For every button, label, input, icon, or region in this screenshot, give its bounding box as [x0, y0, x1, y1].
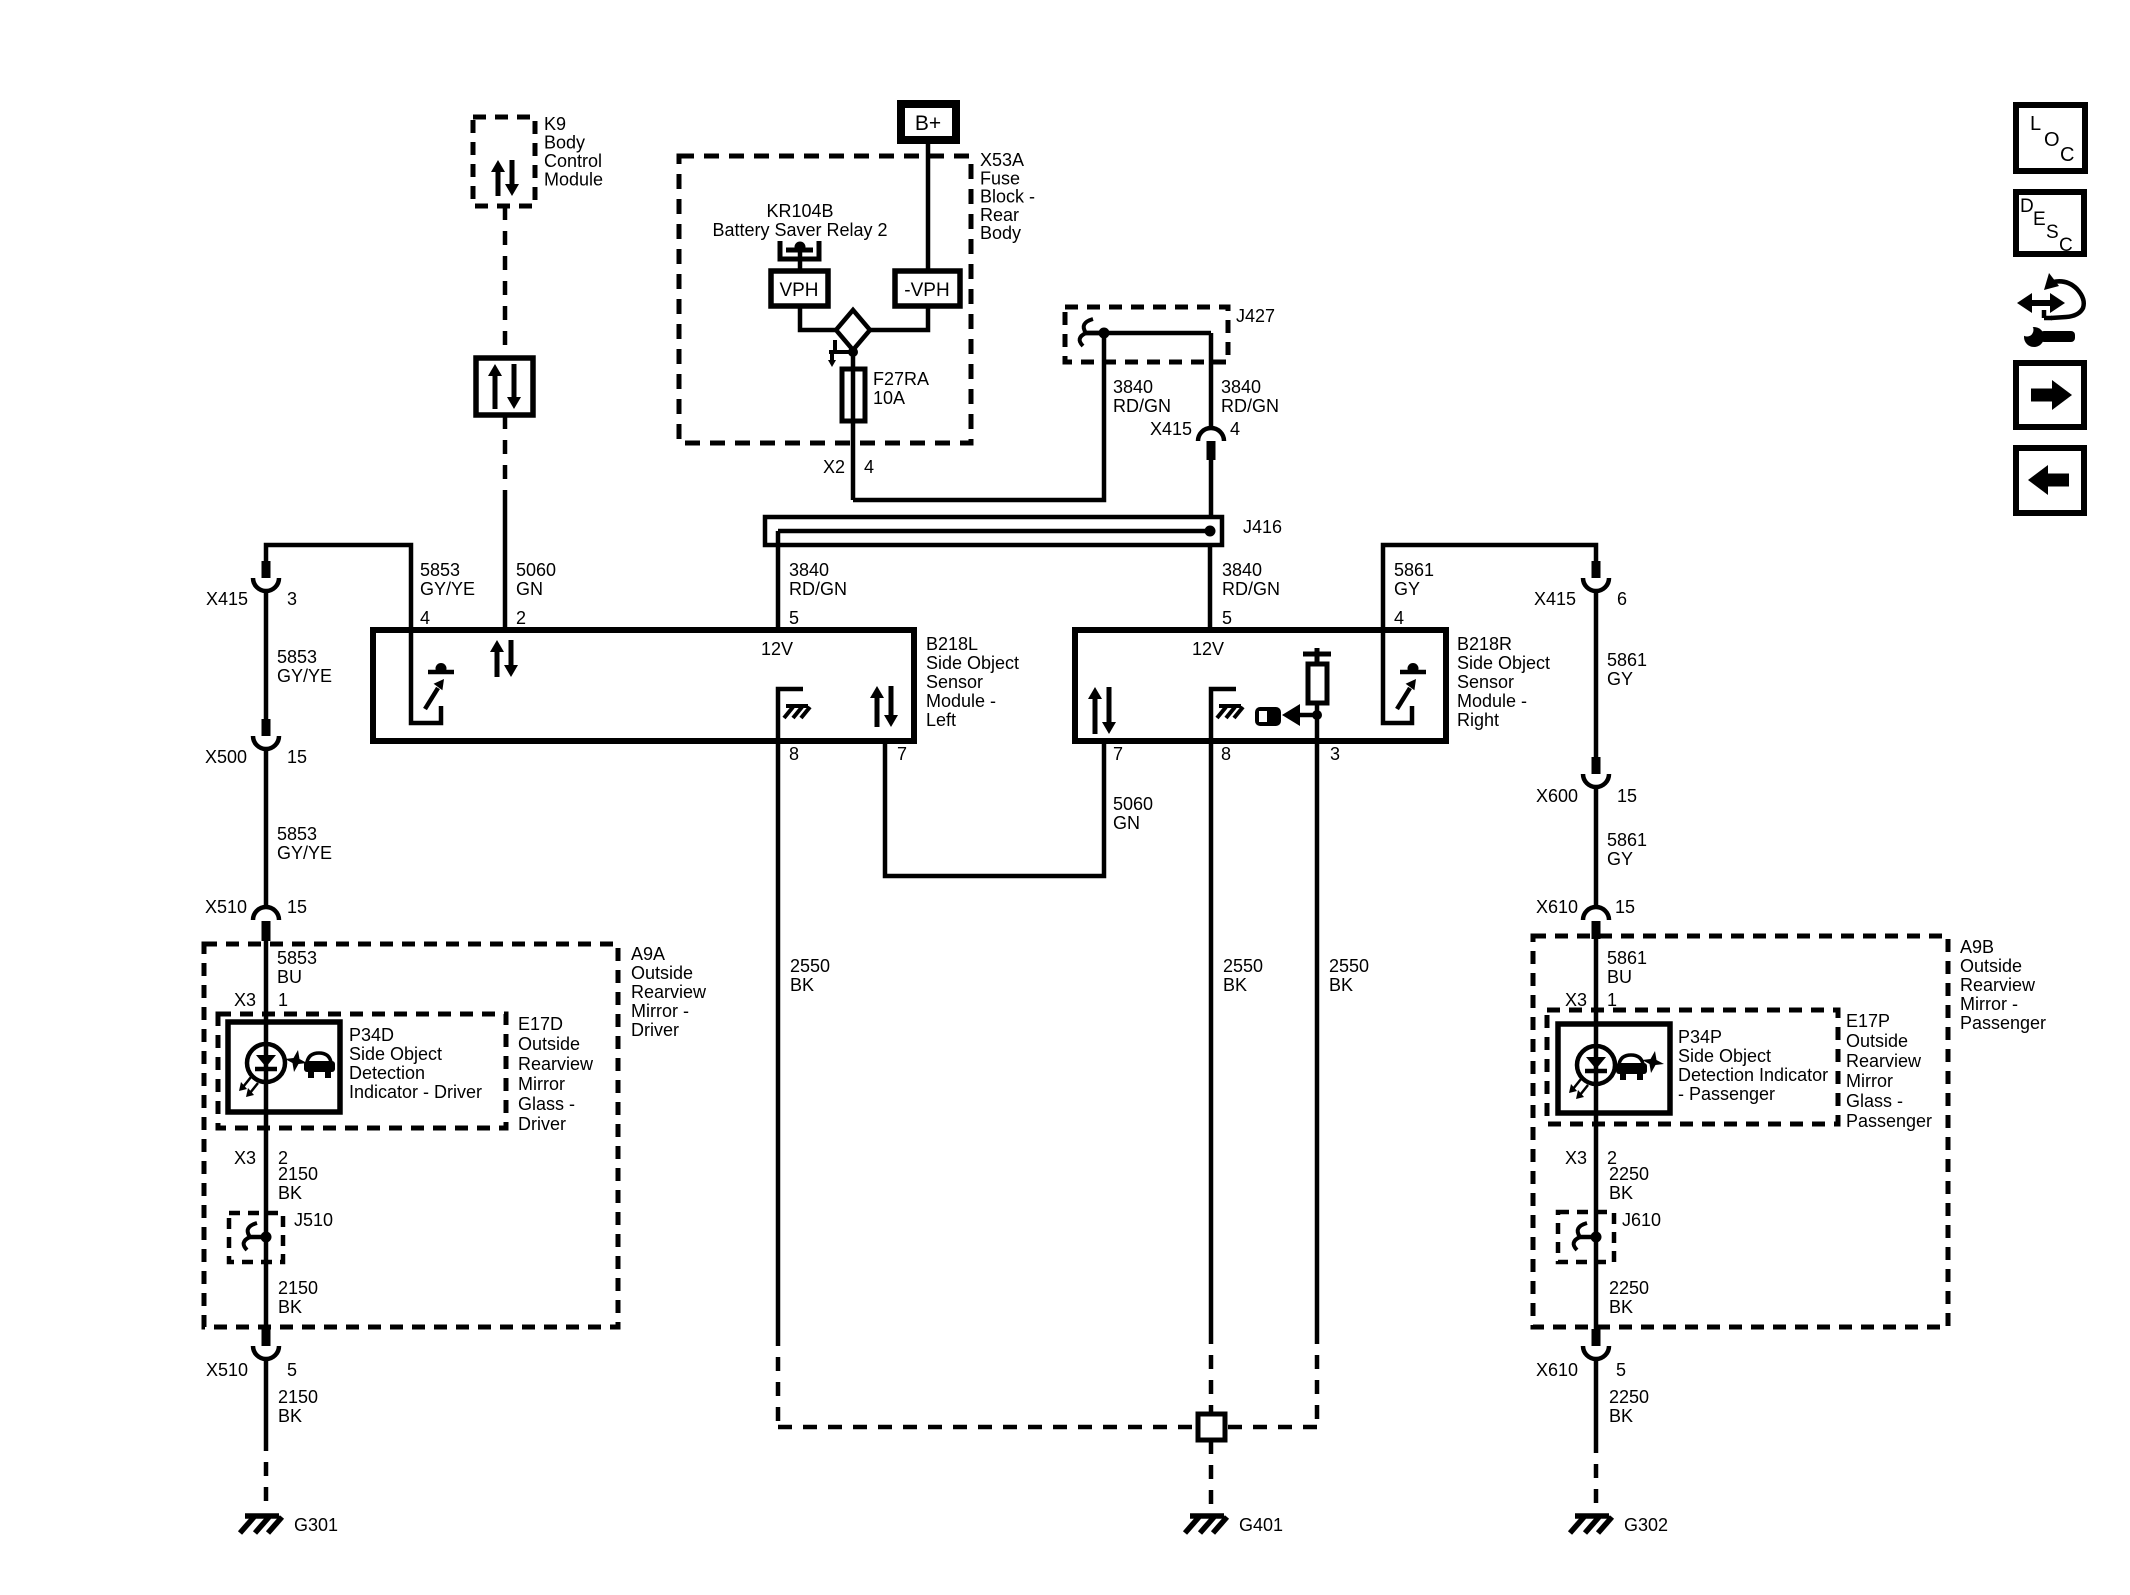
svg-text:Side Object: Side Object	[349, 1044, 442, 1064]
svg-text:F27RA: F27RA	[873, 369, 929, 389]
svg-text:5: 5	[789, 608, 799, 628]
svg-text:3: 3	[1330, 744, 1340, 764]
svg-text:X2: X2	[823, 457, 845, 477]
svg-text:Outside: Outside	[518, 1034, 580, 1054]
svg-text:2150: 2150	[278, 1278, 318, 1298]
svg-text:BK: BK	[790, 975, 814, 995]
svg-text:GN: GN	[516, 579, 543, 599]
svg-text:Rearview: Rearview	[1960, 975, 2036, 995]
svg-text:Fuse: Fuse	[980, 168, 1020, 188]
svg-text:Rear: Rear	[980, 205, 1019, 225]
svg-text:E: E	[2033, 209, 2046, 230]
svg-text:15: 15	[1617, 786, 1637, 806]
svg-text:BK: BK	[1609, 1297, 1633, 1317]
svg-text:15: 15	[287, 897, 307, 917]
svg-text:3840: 3840	[1222, 560, 1262, 580]
svg-text:X510: X510	[206, 1360, 248, 1380]
svg-text:Glass -: Glass -	[518, 1094, 575, 1114]
svg-text:Passenger: Passenger	[1960, 1013, 2046, 1033]
svg-text:BK: BK	[278, 1406, 302, 1426]
svg-text:5861: 5861	[1607, 948, 1647, 968]
svg-text:2: 2	[516, 608, 526, 628]
svg-text:5861: 5861	[1607, 830, 1647, 850]
svg-text:E17P: E17P	[1846, 1011, 1890, 1031]
svg-text:Passenger: Passenger	[1846, 1111, 1932, 1131]
svg-text:Driver: Driver	[518, 1114, 566, 1134]
svg-text:Glass -: Glass -	[1846, 1091, 1903, 1111]
svg-text:7: 7	[1113, 744, 1123, 764]
svg-text:S: S	[2046, 222, 2059, 243]
svg-text:2150: 2150	[278, 1164, 318, 1184]
svg-text:GN: GN	[1113, 813, 1140, 833]
svg-text:- Passenger: - Passenger	[1678, 1084, 1775, 1104]
svg-text:5853: 5853	[277, 948, 317, 968]
svg-text:Outside: Outside	[1846, 1031, 1908, 1051]
svg-text:A9A: A9A	[631, 944, 665, 964]
svg-text:2250: 2250	[1609, 1164, 1649, 1184]
svg-text:BK: BK	[1223, 975, 1247, 995]
svg-text:2550: 2550	[790, 956, 830, 976]
svg-text:1: 1	[278, 990, 288, 1010]
svg-text:15: 15	[287, 747, 307, 767]
svg-text:J416: J416	[1243, 517, 1282, 537]
svg-text:Battery Saver Relay 2: Battery Saver Relay 2	[712, 220, 887, 240]
svg-text:2550: 2550	[1329, 956, 1369, 976]
svg-text:X3: X3	[1565, 1148, 1587, 1168]
svg-text:Rearview: Rearview	[518, 1054, 594, 1074]
svg-text:Driver: Driver	[631, 1020, 679, 1040]
svg-text:G401: G401	[1239, 1515, 1283, 1535]
svg-text:Module: Module	[544, 170, 603, 190]
svg-text:GY/YE: GY/YE	[277, 666, 332, 686]
svg-text:5060: 5060	[516, 560, 556, 580]
svg-text:GY: GY	[1607, 849, 1633, 869]
svg-text:RD/GN: RD/GN	[1113, 396, 1171, 416]
svg-text:B218R: B218R	[1457, 634, 1512, 654]
svg-text:BK: BK	[1609, 1183, 1633, 1203]
svg-text:X500: X500	[205, 747, 247, 767]
svg-text:5: 5	[1616, 1360, 1626, 1380]
svg-text:Left: Left	[926, 710, 956, 730]
svg-text:BK: BK	[1609, 1406, 1633, 1426]
svg-text:12V: 12V	[761, 639, 793, 659]
svg-text:BK: BK	[278, 1183, 302, 1203]
svg-text:Sensor: Sensor	[1457, 672, 1514, 692]
svg-text:RD/GN: RD/GN	[1221, 396, 1279, 416]
svg-text:GY/YE: GY/YE	[420, 579, 475, 599]
svg-text:10A: 10A	[873, 388, 905, 408]
svg-text:BU: BU	[277, 967, 302, 987]
svg-text:Body: Body	[980, 223, 1021, 243]
svg-text:5853: 5853	[420, 560, 460, 580]
svg-text:Mirror: Mirror	[518, 1074, 565, 1094]
svg-text:X610: X610	[1536, 897, 1578, 917]
svg-text:1: 1	[1607, 990, 1617, 1010]
svg-text:Body: Body	[544, 133, 585, 153]
svg-text:Block -: Block -	[980, 187, 1035, 207]
svg-text:J510: J510	[294, 1210, 333, 1230]
svg-text:Side Object: Side Object	[1457, 653, 1550, 673]
svg-text:4: 4	[864, 457, 874, 477]
svg-text:7: 7	[897, 744, 907, 764]
svg-text:5861: 5861	[1394, 560, 1434, 580]
svg-text:3840: 3840	[1221, 377, 1261, 397]
svg-text:Outside: Outside	[631, 963, 693, 983]
svg-text:3: 3	[287, 589, 297, 609]
svg-text:4: 4	[420, 608, 430, 628]
svg-text:KR104B: KR104B	[766, 201, 833, 221]
svg-text:12V: 12V	[1192, 639, 1224, 659]
svg-text:6: 6	[1617, 589, 1627, 609]
svg-text:Outside: Outside	[1960, 956, 2022, 976]
svg-text:2250: 2250	[1609, 1387, 1649, 1407]
svg-text:4: 4	[1230, 419, 1240, 439]
svg-text:Module -: Module -	[1457, 691, 1527, 711]
svg-text:RD/GN: RD/GN	[789, 579, 847, 599]
svg-text:O: O	[2044, 129, 2060, 151]
svg-text:Control: Control	[544, 151, 602, 171]
svg-text:5: 5	[1222, 608, 1232, 628]
svg-text:3840: 3840	[1113, 377, 1153, 397]
svg-text:5853: 5853	[277, 647, 317, 667]
svg-text:BK: BK	[278, 1297, 302, 1317]
svg-text:8: 8	[789, 744, 799, 764]
svg-text:15: 15	[1615, 897, 1635, 917]
svg-text:E17D: E17D	[518, 1014, 563, 1034]
svg-text:2550: 2550	[1223, 956, 1263, 976]
svg-text:Mirror: Mirror	[1846, 1071, 1893, 1091]
svg-text:VPH: VPH	[779, 280, 818, 301]
svg-text:J610: J610	[1622, 1210, 1661, 1230]
svg-text:GY/YE: GY/YE	[277, 843, 332, 863]
svg-text:3840: 3840	[789, 560, 829, 580]
svg-text:BK: BK	[1329, 975, 1353, 995]
svg-text:5853: 5853	[277, 824, 317, 844]
svg-text:G301: G301	[294, 1515, 338, 1535]
svg-text:B+: B+	[915, 112, 941, 135]
svg-text:C: C	[2059, 235, 2073, 256]
svg-text:Detection: Detection	[349, 1063, 425, 1083]
svg-text:G302: G302	[1624, 1515, 1668, 1535]
svg-text:X3: X3	[234, 1148, 256, 1168]
svg-text:RD/GN: RD/GN	[1222, 579, 1280, 599]
svg-text:L: L	[2030, 113, 2041, 135]
svg-text:5861: 5861	[1607, 650, 1647, 670]
svg-text:Right: Right	[1457, 710, 1499, 730]
svg-text:Indicator - Driver: Indicator - Driver	[349, 1082, 482, 1102]
svg-text:Detection Indicator: Detection Indicator	[1678, 1065, 1828, 1085]
svg-text:4: 4	[1394, 608, 1404, 628]
svg-text:GY: GY	[1394, 579, 1420, 599]
svg-text:8: 8	[1221, 744, 1231, 764]
svg-text:P34D: P34D	[349, 1025, 394, 1045]
svg-text:X600: X600	[1536, 786, 1578, 806]
svg-text:Side Object: Side Object	[926, 653, 1019, 673]
svg-text:2250: 2250	[1609, 1278, 1649, 1298]
svg-text:Mirror -: Mirror -	[1960, 994, 2018, 1014]
svg-text:X53A: X53A	[980, 150, 1024, 170]
svg-text:Side Object: Side Object	[1678, 1046, 1771, 1066]
svg-text:Mirror -: Mirror -	[631, 1001, 689, 1021]
svg-text:X3: X3	[234, 990, 256, 1010]
svg-text:5: 5	[287, 1360, 297, 1380]
svg-text:Rearview: Rearview	[1846, 1051, 1922, 1071]
svg-text:X510: X510	[205, 897, 247, 917]
svg-text:2150: 2150	[278, 1387, 318, 1407]
svg-text:X415: X415	[1534, 589, 1576, 609]
svg-text:X415: X415	[1150, 419, 1192, 439]
svg-text:P34P: P34P	[1678, 1027, 1722, 1047]
svg-text:5060: 5060	[1113, 794, 1153, 814]
svg-text:A9B: A9B	[1960, 937, 1994, 957]
svg-text:Rearview: Rearview	[631, 982, 707, 1002]
svg-text:Sensor: Sensor	[926, 672, 983, 692]
svg-text:GY: GY	[1607, 669, 1633, 689]
svg-text:X3: X3	[1565, 990, 1587, 1010]
svg-text:-VPH: -VPH	[904, 280, 949, 301]
svg-text:D: D	[2020, 196, 2034, 217]
svg-text:J427: J427	[1236, 306, 1275, 326]
svg-text:X415: X415	[206, 589, 248, 609]
svg-text:B218L: B218L	[926, 634, 978, 654]
svg-text:Module -: Module -	[926, 691, 996, 711]
svg-text:C: C	[2060, 144, 2074, 166]
svg-text:K9: K9	[544, 114, 566, 134]
svg-text:BU: BU	[1607, 967, 1632, 987]
svg-text:X610: X610	[1536, 1360, 1578, 1380]
